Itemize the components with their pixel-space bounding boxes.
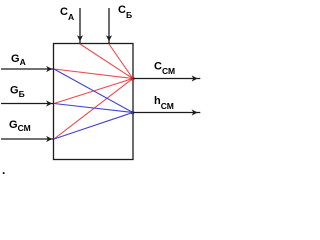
svg-text:GСМ: GСМ xyxy=(9,119,31,133)
input arrow G_B (left) xyxy=(1,100,54,106)
blue line from G_B inlet to h_CM node xyxy=(54,104,133,113)
output arrow C_CM (right) xyxy=(133,75,200,81)
node h_CM junction dot xyxy=(131,111,135,115)
red line from G_A inlet to C_CM node xyxy=(54,69,133,79)
input arrow C_B (top) xyxy=(106,8,112,44)
svg-text:hСМ: hСМ xyxy=(154,95,174,111)
svg-text:.: . xyxy=(2,163,5,177)
blue line from G_A inlet to h_CM node xyxy=(54,69,133,113)
svg-text:ССМ: ССМ xyxy=(154,60,175,76)
red line from G_CM inlet to C_CM node xyxy=(54,79,133,140)
node C_CM junction dot xyxy=(131,77,135,81)
input arrow G_CM (left) xyxy=(1,136,54,142)
blue line from G_CM inlet to h_CM node xyxy=(54,113,133,140)
svg-text:СБ: СБ xyxy=(118,4,132,20)
mixer block xyxy=(54,44,134,160)
svg-text:GА: GА xyxy=(11,53,26,67)
red line from C_A inlet to C_CM node xyxy=(80,44,133,79)
input arrow C_A (top) xyxy=(77,8,83,44)
red line from G_B inlet to C_CM node xyxy=(54,79,133,104)
svg-text:СА: СА xyxy=(60,6,74,22)
input arrow G_A (left) xyxy=(1,66,54,72)
svg-text:GБ: GБ xyxy=(10,84,25,99)
red line from C_B inlet to C_CM node xyxy=(109,44,133,79)
output arrow h_CM (right) xyxy=(133,109,200,115)
